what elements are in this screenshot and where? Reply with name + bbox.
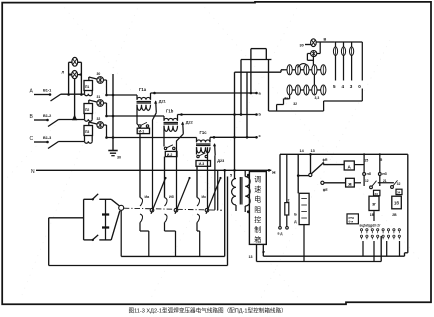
svg-text:П2: П2: [85, 108, 89, 112]
contact column Ис bottom drop: [196, 223, 198, 232]
svg-text:5: 5: [380, 158, 382, 162]
switch B1-2 blade: [48, 120, 59, 127]
current transformer circle 30: [88, 77, 90, 81]
control right edge: [407, 154, 409, 253]
fuse П3 loops: [85, 141, 93, 143]
contact column Иа blade: [151, 178, 166, 214]
relay K1: [369, 196, 379, 210]
transformer Г1а secondary: [137, 105, 151, 111]
chain 2 coil contact: [378, 173, 381, 176]
svg-text:вц2а0др2п 2г: вц2а0др2п 2г: [360, 223, 382, 227]
fuse П1 box: [84, 81, 93, 91]
contact column Ис lower jaw: [197, 214, 200, 223]
switch I-3 contact: [196, 147, 198, 154]
contact column Иа lower jaw: [140, 214, 143, 223]
neutral line N: [36, 169, 271, 171]
svg-text:Л: Л: [62, 71, 65, 75]
wire D22 down column 2 right: [177, 134, 184, 209]
fuse П2 loops: [85, 119, 93, 121]
svg-text:B1-2: B1-2: [43, 114, 51, 118]
svg-text:制: 制: [254, 225, 261, 234]
chain 1 contact: [370, 186, 373, 189]
wire aux vertical 2: [217, 170, 219, 210]
bottom collector wire: [269, 110, 324, 112]
svg-text:И-3: И-3: [199, 162, 205, 166]
feed wire phase A to T1a: [107, 94, 138, 96]
contact column Ис pivot circle: [205, 208, 209, 212]
wire nest V left2: [240, 60, 242, 115]
row1-row2 connector: [313, 75, 315, 85]
svg-text:Н: Н: [272, 170, 275, 175]
svg-text:C: C: [30, 136, 34, 142]
row2 under-wiring: [289, 95, 291, 99]
contact column Иб upper jaw: [165, 198, 168, 207]
svg-text:пб: пб: [382, 172, 387, 176]
control left edge: [279, 154, 281, 226]
wire nest V c link: [246, 72, 248, 137]
svg-text:c: c: [259, 133, 262, 138]
svg-text:2В: 2В: [392, 213, 397, 217]
contact row 2: [287, 85, 292, 95]
control transformer secondary: [245, 177, 250, 206]
svg-text:3: 3: [350, 84, 353, 89]
svg-text:д: д: [294, 219, 297, 223]
transformer Г1с core: [196, 143, 211, 145]
lower bus to control right: [263, 255, 404, 257]
svg-text:电: 电: [254, 195, 261, 204]
svg-text:3,3: 3,3: [315, 96, 320, 100]
fuse drop at 335.5: [335, 42, 337, 47]
wire box R right stub: [354, 182, 361, 184]
wire lamp loop top rail: [69, 61, 82, 63]
relay K2: [392, 196, 402, 209]
ground symbol: [108, 150, 117, 152]
contact column Иб blade: [175, 178, 190, 214]
chain 1 box 51: [374, 190, 380, 195]
wire to row1: [312, 57, 314, 65]
chain 1 drop: [363, 154, 365, 186]
wire 0 down: [361, 89, 363, 102]
svg-text:В: В: [324, 38, 327, 42]
lamp L1: [311, 39, 317, 47]
switch I-1 label box: [137, 128, 149, 133]
svg-text:调: 调: [254, 175, 261, 184]
row1 jumper arc: [298, 64, 307, 68]
switch I-2 contact: [163, 126, 165, 147]
tap switch D21 blade with arrow: [155, 101, 158, 113]
svg-text:34: 34: [397, 191, 401, 195]
switch B1-3 blade: [48, 142, 59, 149]
svg-text:A: A: [30, 89, 34, 95]
svg-text:30: 30: [300, 44, 304, 48]
wire D23 down aux: [214, 155, 216, 210]
transformer Г1b core: [164, 122, 179, 124]
svg-text:Д21: Д21: [159, 100, 166, 104]
control transformer primary: [232, 179, 236, 205]
wire phase B to fuse: [59, 119, 85, 121]
svg-text:П1: П1: [85, 85, 89, 89]
svg-text:a: a: [259, 90, 262, 95]
svg-text:б-я: б-я: [349, 220, 354, 224]
wire phase A to fuse: [61, 93, 84, 95]
master switch bottom blade: [93, 235, 98, 239]
box R: [346, 178, 355, 187]
bus wire 2: [49, 265, 228, 267]
wire I-1 down to contact column 1: [139, 134, 141, 198]
fuse П3 box: [84, 126, 93, 136]
transformer Г1b secondary: [164, 126, 178, 132]
master switch mechanism bar: [105, 199, 107, 240]
contact column Иа upper jaw: [140, 198, 143, 207]
svg-text:Д23: Д23: [217, 159, 224, 163]
svg-text:1б: 1б: [394, 201, 399, 206]
svg-text:13: 13: [249, 255, 253, 259]
current transformer circle 32: [88, 122, 90, 126]
master switch feeder wire: [49, 217, 84, 219]
svg-text:Иа: Иа: [145, 195, 151, 199]
transformer Г1а core: [137, 101, 152, 103]
switch I-1 contact: [136, 105, 138, 124]
wire nest H2: [241, 59, 271, 61]
svg-text:13: 13: [311, 149, 315, 153]
wire lamp right leg: [80, 62, 82, 94]
chain 2 cross wire: [378, 182, 394, 184]
contact column Иб lower jaw: [165, 214, 168, 223]
box bottom stub 13: [256, 244, 258, 261]
transformer Г1b output riser: [177, 115, 179, 121]
master switch pivot circle: [119, 205, 124, 210]
svg-text:Д22: Д22: [186, 121, 193, 125]
wire run b: [178, 114, 257, 116]
svg-text:4: 4: [342, 84, 345, 89]
lamp HL1: [72, 57, 78, 66]
fuse drops top wire: [334, 41, 362, 43]
svg-text:32: 32: [397, 182, 401, 186]
mechanical dash-dot linkage: [124, 208, 222, 210]
wire nest V right1: [265, 49, 267, 60]
transformer Г1а output riser: [150, 93, 152, 100]
current transformer circle 31: [88, 100, 90, 104]
transformer Г1b primary: [163, 116, 165, 121]
lower bus 2 to control right: [257, 261, 382, 263]
master switch pivot drop: [120, 210, 122, 256]
fuse drop at 351.6: [351, 42, 353, 47]
selector contact lower: [321, 181, 324, 184]
control top wire 14 13: [280, 153, 408, 155]
master switch frame: [83, 199, 85, 240]
svg-text:ϕЕ: ϕЕ: [323, 188, 329, 192]
wire column 3 right: [207, 147, 209, 208]
svg-text:2: 2: [288, 199, 290, 203]
switch B1-1 blade: [51, 94, 62, 101]
lamp HL2: [72, 71, 78, 79]
wire pivot left: [298, 175, 309, 177]
bus riser 1: [224, 170, 226, 256]
svg-text:пб: пб: [367, 172, 372, 176]
master switch linkage arms: [111, 199, 119, 206]
svg-text:ϕR: ϕR: [323, 158, 329, 162]
svg-text:b: b: [259, 111, 262, 116]
svg-text:B1-1: B1-1: [43, 89, 51, 93]
svg-text:图11-3 ХД2-1型弧焊变压器电气线路图（配ПД-1型: 图11-3 ХД2-1型弧焊变压器电气线路图（配ПД-1型控制箱线路）: [129, 307, 287, 315]
feed wire phase B to T1b: [107, 115, 165, 117]
svg-text:31: 31: [97, 95, 101, 99]
svg-text:П3: П3: [85, 130, 89, 134]
svg-text:15: 15: [364, 159, 368, 163]
fuse П1 loops: [85, 94, 93, 96]
lamp HL2 stubs: [69, 74, 72, 76]
svg-text:32: 32: [97, 117, 101, 121]
svg-text:Г1а: Г1а: [139, 87, 147, 92]
contact column Иб bottom drop: [164, 223, 166, 232]
wire L1 right: [316, 41, 334, 43]
fuse drop at 343.5: [343, 42, 345, 47]
wire I-3 down to contact column 3: [196, 166, 198, 197]
tap switch D22 blade with arrow: [182, 122, 185, 133]
wire nest V left3 long: [234, 72, 236, 178]
phase C input wire: [34, 141, 48, 143]
svg-text:B: B: [30, 114, 34, 120]
bus riser 2: [227, 177, 229, 266]
terminal row 1: [360, 229, 362, 231]
wire lamp left leg: [68, 62, 70, 94]
contact row 1: [283, 69, 287, 71]
wire to box A: [323, 164, 344, 166]
svg-text:И-1: И-1: [139, 130, 145, 134]
contact column Иа bottom drop: [139, 223, 141, 232]
aux box bottom left: [347, 214, 358, 224]
wire D21 down column 1 right: [153, 113, 157, 209]
svg-text:阻: 阻: [254, 205, 261, 214]
lamp 30 wire stub: [305, 44, 311, 46]
contact column Иа pivot circle: [150, 208, 154, 212]
speed resistor box: [249, 172, 266, 245]
relay column box bottom drop: [303, 225, 305, 262]
svg-text:Г1с: Г1с: [200, 130, 208, 135]
ground wire: [112, 74, 114, 151]
svg-text:зг: зг: [372, 201, 376, 206]
svg-text:速: 速: [254, 186, 261, 194]
wire run c: [210, 136, 257, 138]
transformer Г1с secondary: [197, 147, 211, 153]
svg-text:12: 12: [365, 179, 369, 183]
transformer Г1а primary: [136, 95, 138, 100]
switch I-3 label box: [196, 161, 211, 167]
wire phase C to fuse: [59, 141, 85, 143]
phase B input wire: [34, 119, 48, 121]
contact column Ис upper jaw: [197, 198, 200, 207]
chain 1 coil contact: [363, 173, 366, 176]
wire nest V right2: [268, 60, 270, 112]
svg-text:Иб: Иб: [169, 195, 175, 199]
wire lamp middle leg to phase B: [74, 78, 76, 120]
tap switch D23 blade with arrow: [214, 144, 217, 156]
svg-text:32: 32: [293, 102, 297, 106]
wire nest H1: [251, 48, 266, 50]
phase A input wire: [34, 94, 50, 96]
svg-text:5: 5: [230, 174, 232, 178]
transformer Г1с output riser: [209, 137, 211, 142]
wire run a: [151, 92, 257, 94]
svg-text:Ис: Ис: [202, 195, 207, 199]
svg-text:Я: Я: [348, 182, 351, 187]
wire nest V left1: [250, 49, 252, 93]
svg-text:箱: 箱: [254, 235, 261, 244]
svg-text:5: 5: [333, 84, 336, 89]
drop 0: [361, 42, 363, 81]
wire nest V row1 feed: [280, 70, 282, 72]
relay drops to bus: [373, 211, 375, 221]
control transformer bottom stubs: [235, 205, 237, 211]
svg-text:23: 23: [375, 192, 379, 196]
terminal row 2: [360, 235, 362, 237]
svg-text:30: 30: [97, 72, 101, 76]
master switch top blade: [93, 194, 98, 199]
svg-text:N: N: [31, 169, 35, 175]
svg-text:И-2: И-2: [167, 153, 173, 157]
svg-text:30: 30: [117, 156, 121, 160]
wire to box R: [324, 182, 346, 184]
wire I-2 down to contact column 2: [164, 157, 166, 198]
svg-text:зг: зг: [262, 250, 266, 254]
selector contact upper: [310, 154, 312, 173]
chain 2 box 54: [396, 189, 402, 194]
svg-text:14: 14: [300, 149, 305, 153]
wire nest H3: [235, 71, 282, 73]
control transformer core: [239, 177, 241, 205]
svg-text:0: 0: [358, 84, 361, 89]
contact column Иб pivot circle: [174, 208, 178, 212]
lamp L2 branch: [319, 42, 321, 54]
svg-text:Г1b: Г1b: [166, 109, 174, 114]
svg-text:А: А: [348, 165, 352, 170]
svg-text:Б: Б: [294, 213, 297, 217]
chain 2 contact: [391, 186, 394, 189]
feed wire phase C to T1c: [107, 137, 197, 139]
box A: [344, 161, 354, 170]
svg-text:в д: в д: [278, 232, 283, 236]
transformer Г1с primary: [196, 138, 198, 143]
fuse П2 box: [84, 104, 93, 114]
bus wire 1: [121, 255, 225, 257]
svg-text:B1-3: B1-3: [43, 136, 51, 140]
wire box A to chain1: [354, 164, 364, 166]
box bottom stub 31: [262, 244, 264, 256]
relay column box: [299, 193, 309, 224]
terminal circles bottom left: [279, 227, 282, 230]
contact column Ис blade: [206, 178, 221, 214]
svg-text:控: 控: [254, 215, 261, 224]
chain 2 drop: [379, 154, 381, 186]
switch I-2 label box: [165, 151, 177, 156]
